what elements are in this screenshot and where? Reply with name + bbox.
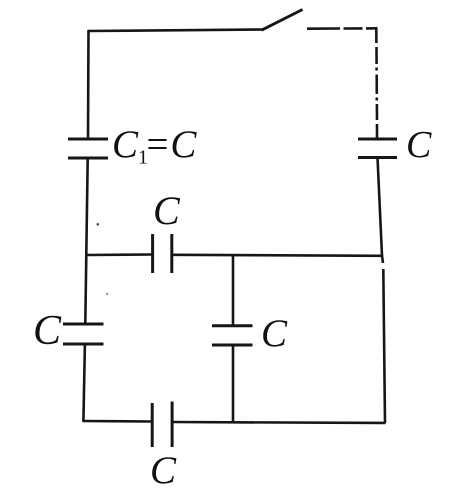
wire left vertical upper: [87, 30, 90, 139]
capacitor C (lower-left) plates: [63, 324, 104, 344]
node junction left-middle: [86, 253, 152, 256]
wire top-left horizontal: [88, 30, 263, 32]
svg-text:C: C: [150, 449, 177, 492]
capacitor C1 plates: [68, 139, 108, 158]
capacitor C (middle horizontal) plates: [153, 234, 172, 273]
svg-text:C: C: [406, 124, 432, 166]
wire left vertical middle: [85, 158, 87, 324]
wire middle vertical upper: [232, 255, 235, 326]
wire middle horizontal right of capacitor: [172, 255, 382, 256]
wire right vertical upper (faded dash-dot): [375, 28, 378, 139]
wire bottom-left horizontal: [83, 420, 152, 423]
capacitor C (right) plates: [358, 139, 397, 158]
wire top-right horizontal (faded dash): [307, 27, 378, 30]
wire middle vertical lower: [232, 345, 235, 422]
svg-text:C: C: [261, 312, 288, 355]
capacitor C (bottom) plates: [152, 402, 172, 448]
svg-text:C1=C: C1=C: [112, 123, 197, 169]
switch S blade: [262, 10, 303, 31]
scan speck near node A: [97, 223, 100, 226]
svg-text:C: C: [153, 188, 181, 233]
svg-text:C: C: [33, 308, 62, 354]
wire right vertical lower: [378, 158, 383, 256]
capacitor C (middle vertical) plates: [212, 326, 253, 345]
wire left vertical bottom: [83, 344, 85, 422]
wire bottom-right horizontal: [172, 422, 385, 423]
scan speck lower: [106, 293, 108, 295]
